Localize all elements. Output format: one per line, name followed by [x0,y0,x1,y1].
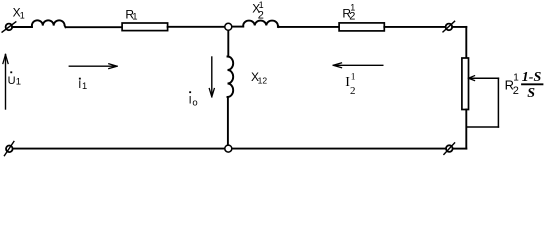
label R2'(1-S)/S [505,70,542,101]
wire resistor R2' to terminal TR [384,26,445,28]
wire terminal TR to top-right corner [452,26,466,28]
label X1 [13,5,25,20]
svg-text:o: o [192,98,197,109]
svg-text:1: 1 [132,11,137,22]
wire resistor R1 to node A [168,26,225,28]
resistor RL = R2'(1-S)/S (vertical box) [462,58,469,110]
resistor R1 [122,23,168,31]
svg-text:1: 1 [16,77,21,88]
svg-text:1: 1 [259,0,264,10]
label I1 (with dot) [78,78,87,91]
fraction bar of (1-S)/S [522,83,543,85]
inductor X1 [32,20,66,27]
wire resistor RL to bottom-right corner [465,110,467,149]
tap return wire down [497,78,499,127]
svg-text:1: 1 [513,73,519,84]
terminal TL (top-left input) [2,22,16,32]
node A (top junction) [225,23,232,30]
wire inductor X2' to resistor R2' [278,26,339,28]
tap return wire to main right wire [466,126,498,128]
svg-text:I: I [78,79,81,91]
svg-text:U: U [8,75,16,87]
svg-text:12: 12 [258,76,268,86]
wire node A down to inductor X12 [227,31,229,57]
node B (bottom junction) [225,145,232,152]
terminal TR (top-right) [443,21,455,32]
svg-text:1: 1 [20,10,25,20]
terminal BL (bottom-left) [4,142,14,156]
svg-text:2: 2 [349,11,355,23]
svg-text:1: 1 [82,81,87,91]
inductor X2' [243,21,279,27]
svg-text:1: 1 [351,73,356,83]
svg-text:2: 2 [350,85,356,97]
label X12 [251,70,267,85]
svg-text:S: S [527,86,535,101]
arrow U1 (voltage) [3,55,8,110]
arrow I0 (magnetizing current) [209,57,214,97]
label I2' (serif) [345,73,356,97]
arrow I2' (rotor current) [333,63,383,68]
label R1 [125,8,137,23]
wire terminal TL to inductor X1 [12,26,32,28]
tap arrow into resistor RL [469,76,499,81]
svg-text:1-S: 1-S [522,70,542,85]
svg-text:I: I [189,95,192,107]
resistor R2' [339,23,384,31]
wire node A to inductor X2' [232,26,243,28]
wire bottom-right corner to terminal BR [453,148,467,150]
inductor X12 (magnetizing branch) [228,57,234,98]
wire node B to terminal BL [13,148,225,150]
label R2' [342,2,355,22]
svg-text:2: 2 [513,85,519,97]
label I0 (with dot) [189,91,198,108]
wire right side down to resistor RL [465,27,467,58]
wire inductor X1 to resistor R1 [66,26,123,28]
arrow I1 (stator current) [69,64,117,69]
label X2' [252,0,264,22]
wire terminal BR to node B [232,148,446,150]
label U1 (with dot) [8,71,21,87]
terminal BR (bottom-right) [444,143,455,155]
wire inductor X12 to node B [227,97,229,145]
